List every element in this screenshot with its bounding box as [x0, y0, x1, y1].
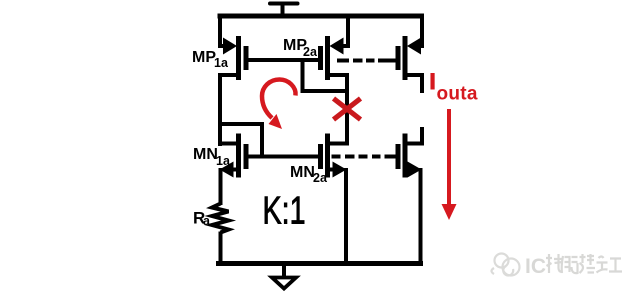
power supply VDD symbol: [270, 4, 298, 17]
svg-text:2a: 2a: [313, 171, 328, 185]
wire MP1a drain down left column: [220, 75, 238, 146]
svg-text:MP: MP: [192, 49, 216, 66]
svg-text:1a: 1a: [216, 154, 231, 168]
wire resistor to ground rail: [219, 232, 223, 265]
wire MP1a source from rail: [220, 16, 226, 46]
wire MN2a drain lead: [330, 142, 349, 146]
svg-text:K:1: K:1: [263, 190, 306, 233]
annotation red curved arrow: [262, 80, 296, 130]
annotation red X broken connection: [334, 99, 361, 120]
wire MN1a drain-gate connection: [220, 124, 262, 157]
transistor MN1a: [220, 134, 247, 178]
wire right PMOS source from rail: [416, 16, 422, 46]
svg-text:IC: IC: [525, 255, 546, 278]
transistor MP1a: [223, 36, 246, 80]
wire gate-to-drain tap of MP2a: [303, 60, 350, 91]
transistor duplicated NMOS: [398, 134, 422, 178]
wire shared NMOS gate line MN1a-MN2a: [246, 155, 321, 159]
watermark icon: [492, 254, 520, 276]
watermark text IC ji neng ban yun gong: [525, 254, 622, 278]
svg-text:MN: MN: [193, 146, 218, 163]
transistor MN2a: [321, 134, 347, 178]
svg-text:MN: MN: [290, 164, 315, 181]
svg-text:outa: outa: [437, 84, 478, 105]
annotation red output current arrow: [442, 109, 457, 220]
wire MN1a drain lead: [220, 142, 238, 146]
wire MP2a source from rail: [342, 16, 348, 46]
wire MN1a source to resistor: [219, 168, 223, 205]
wire bottom ground rail: [216, 261, 423, 266]
label Iouta output current: [430, 69, 478, 105]
wire MP2a drain to MN2a drain (broken by X): [330, 75, 347, 146]
svg-text:1a: 1a: [214, 56, 229, 70]
wire MN2a source to ground rail: [344, 168, 348, 264]
wire right NMOS source to ground rail: [419, 168, 423, 264]
ground: [272, 264, 296, 289]
wire right PMOS drain open end: [407, 75, 422, 93]
wire right NMOS drain open end: [407, 127, 422, 144]
wire top supply rail: [218, 14, 425, 19]
svg-text:I: I: [430, 69, 436, 94]
resistor Ra: [212, 204, 229, 233]
wire shared PMOS gate line MP1a-MP2a: [246, 58, 321, 62]
svg-text:a: a: [203, 214, 211, 228]
transistor MP2a: [321, 36, 344, 80]
wire dashed NMOS gate mirror line: [332, 155, 398, 159]
transistor duplicated PMOS: [398, 36, 421, 80]
wire dashed PMOS gate mirror line: [337, 59, 397, 63]
svg-text:2a: 2a: [303, 45, 318, 59]
